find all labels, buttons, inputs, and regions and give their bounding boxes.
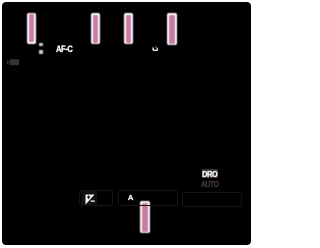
callout bar 5 bbox=[140, 201, 150, 233]
callout bar 1 bbox=[27, 13, 36, 44]
bottom row cell 1 bbox=[79, 190, 113, 206]
DRO AUTO box bbox=[202, 169, 218, 178]
AUTO dim label bbox=[201, 180, 218, 189]
small circular icon (auto review) bbox=[151, 45, 160, 54]
drive mode small squares (dim, blurred) bbox=[39, 43, 43, 46]
exposure compensation cell fill bbox=[81, 191, 97, 207]
bottom row cell 2 bbox=[118, 190, 178, 206]
exposure compensation icon bbox=[84, 193, 96, 205]
screen background bbox=[2, 2, 251, 245]
callout bar 2 bbox=[91, 13, 101, 44]
callout bar 3 bbox=[124, 13, 133, 44]
movie mode icon (dim) bbox=[5, 58, 21, 67]
AF-C focus mode label bbox=[56, 44, 72, 54]
callout bar 4 bbox=[167, 13, 177, 45]
A (auto ISO) label bbox=[128, 193, 133, 202]
bottom row cell 3 bbox=[182, 192, 243, 207]
